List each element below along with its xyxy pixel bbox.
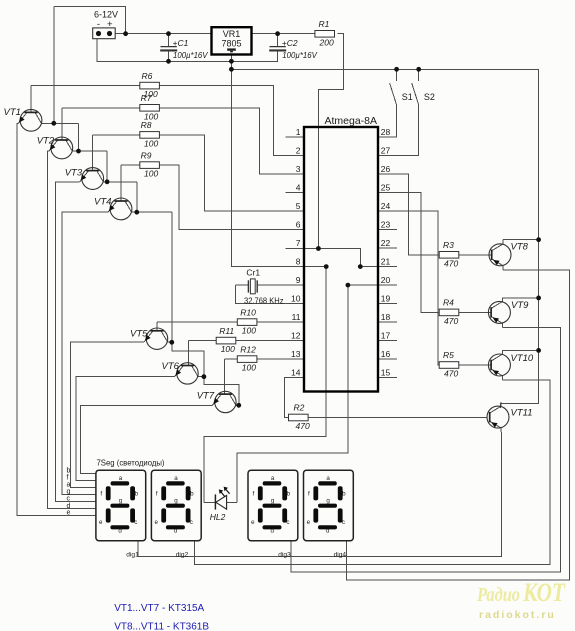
svg-text:200: 200 xyxy=(319,37,334,47)
svg-text:g: g xyxy=(326,497,330,504)
svg-text:R10: R10 xyxy=(240,307,256,317)
svg-text:VT6: VT6 xyxy=(162,361,180,372)
svg-text:1: 1 xyxy=(296,127,301,137)
svg-text:10: 10 xyxy=(291,294,301,304)
svg-text:3: 3 xyxy=(296,164,301,174)
svg-text:d: d xyxy=(270,528,274,535)
svg-text:25: 25 xyxy=(381,183,391,193)
svg-text:VT8...VT11 - KT361B: VT8...VT11 - KT361B xyxy=(114,622,209,631)
svg-text:Cr1: Cr1 xyxy=(246,268,260,278)
svg-text:b: b xyxy=(67,468,71,475)
svg-text:VT4: VT4 xyxy=(94,197,111,208)
svg-text:b: b xyxy=(342,491,346,498)
svg-text:VT11: VT11 xyxy=(511,408,533,419)
svg-text:e: e xyxy=(307,519,311,526)
svg-text:26: 26 xyxy=(381,164,391,174)
svg-text:f: f xyxy=(156,491,158,498)
svg-text:R11: R11 xyxy=(219,326,234,336)
svg-text:14: 14 xyxy=(291,368,301,378)
svg-text:dig3: dig3 xyxy=(278,552,291,559)
svg-text:VT1...VT7 - KT315A: VT1...VT7 - KT315A xyxy=(114,603,204,614)
svg-text:9: 9 xyxy=(296,275,301,285)
svg-text:100: 100 xyxy=(242,326,256,336)
svg-text:100µ*16V: 100µ*16V xyxy=(173,50,209,60)
svg-text:R4: R4 xyxy=(443,298,454,308)
svg-text:f: f xyxy=(67,475,69,482)
svg-text:e: e xyxy=(67,510,71,517)
svg-text:22: 22 xyxy=(381,238,391,248)
svg-text:21: 21 xyxy=(381,257,391,267)
svg-text:dig1: dig1 xyxy=(126,552,139,559)
svg-text:R7: R7 xyxy=(141,93,152,103)
svg-text:c: c xyxy=(67,496,71,503)
svg-text:dig2: dig2 xyxy=(176,552,189,559)
svg-text:28: 28 xyxy=(381,127,391,137)
svg-text:100: 100 xyxy=(144,169,158,179)
svg-text:f: f xyxy=(253,491,255,498)
svg-text:100: 100 xyxy=(221,344,235,354)
svg-text:470: 470 xyxy=(296,421,310,431)
svg-text:5: 5 xyxy=(296,201,301,211)
svg-text:S1: S1 xyxy=(402,92,413,102)
svg-text:d: d xyxy=(326,528,330,535)
svg-text:VT3: VT3 xyxy=(65,168,83,179)
svg-text:d: d xyxy=(174,528,178,535)
svg-text:dig4: dig4 xyxy=(334,552,347,559)
svg-text:13: 13 xyxy=(291,349,301,359)
svg-text:VT8: VT8 xyxy=(511,242,529,253)
svg-text:VT5: VT5 xyxy=(130,328,148,339)
svg-text:R8: R8 xyxy=(141,120,152,130)
svg-text:6: 6 xyxy=(296,220,301,230)
svg-text:R9: R9 xyxy=(141,150,152,160)
svg-text:g: g xyxy=(67,489,71,496)
svg-text:12: 12 xyxy=(291,331,301,341)
svg-text:R1: R1 xyxy=(319,19,330,29)
svg-text:100: 100 xyxy=(242,363,256,373)
svg-text:+C2: +C2 xyxy=(282,38,298,48)
svg-text:b: b xyxy=(135,491,139,498)
svg-text:R3: R3 xyxy=(443,240,454,250)
svg-text:100µ*16V: 100µ*16V xyxy=(282,50,318,60)
svg-text:7805: 7805 xyxy=(221,39,241,49)
svg-text:11: 11 xyxy=(292,312,301,322)
svg-text:a: a xyxy=(119,475,123,482)
svg-text:8: 8 xyxy=(296,257,301,267)
svg-text:g: g xyxy=(174,497,178,504)
svg-text:470: 470 xyxy=(444,369,458,379)
svg-text:a: a xyxy=(326,475,330,482)
svg-text:R6: R6 xyxy=(142,71,153,81)
svg-text:КОТ: КОТ xyxy=(522,578,566,607)
svg-text:16: 16 xyxy=(381,349,391,359)
svg-text:f: f xyxy=(308,491,310,498)
svg-text:HL2: HL2 xyxy=(210,512,226,522)
svg-text:b: b xyxy=(287,491,291,498)
svg-text:+: + xyxy=(107,19,113,30)
svg-text:18: 18 xyxy=(381,312,391,322)
svg-text:d: d xyxy=(118,528,122,535)
svg-text:VT9: VT9 xyxy=(511,300,529,311)
svg-text:32.768 KHz: 32.768 KHz xyxy=(244,295,284,305)
svg-text:7Seg (светодиоды): 7Seg (светодиоды) xyxy=(97,458,165,468)
svg-text:100: 100 xyxy=(144,139,158,149)
svg-text:23: 23 xyxy=(381,220,391,230)
svg-text:b: b xyxy=(190,491,194,498)
svg-text:e: e xyxy=(99,519,103,526)
svg-text:Радио: Радио xyxy=(476,584,520,606)
svg-text:Atmega-8A: Atmega-8A xyxy=(325,115,378,127)
svg-text:VT2: VT2 xyxy=(37,136,55,147)
svg-text:c: c xyxy=(190,519,193,526)
svg-text:e: e xyxy=(251,519,255,526)
svg-text:g: g xyxy=(119,497,123,504)
svg-text:+C1: +C1 xyxy=(173,38,189,48)
svg-text:a: a xyxy=(67,482,71,489)
svg-text:f: f xyxy=(100,491,102,498)
svg-text:-: - xyxy=(97,19,100,30)
svg-text:R2: R2 xyxy=(294,403,305,413)
svg-text:2: 2 xyxy=(296,146,301,156)
svg-text:e: e xyxy=(154,519,158,526)
svg-text:470: 470 xyxy=(444,258,458,268)
svg-text:17: 17 xyxy=(381,331,391,341)
svg-text:c: c xyxy=(342,519,345,526)
svg-text:4: 4 xyxy=(296,183,301,193)
svg-text:24: 24 xyxy=(381,201,391,211)
svg-text:19: 19 xyxy=(381,294,391,304)
svg-text:g: g xyxy=(271,497,275,504)
svg-text:20: 20 xyxy=(381,275,391,285)
svg-text:radiokot.ru: radiokot.ru xyxy=(479,609,556,621)
svg-text:7: 7 xyxy=(296,238,301,248)
svg-text:a: a xyxy=(271,475,275,482)
svg-text:15: 15 xyxy=(381,368,391,378)
svg-text:S2: S2 xyxy=(424,92,435,102)
svg-text:c: c xyxy=(286,519,289,526)
svg-text:c: c xyxy=(134,519,137,526)
svg-text:R12: R12 xyxy=(240,344,256,354)
svg-text:R5: R5 xyxy=(443,350,454,360)
svg-text:470: 470 xyxy=(444,316,458,326)
svg-text:a: a xyxy=(174,475,178,482)
svg-text:VT1: VT1 xyxy=(4,107,21,118)
svg-text:27: 27 xyxy=(381,146,391,156)
svg-text:VT10: VT10 xyxy=(511,353,534,364)
svg-text:VT7: VT7 xyxy=(197,390,215,401)
